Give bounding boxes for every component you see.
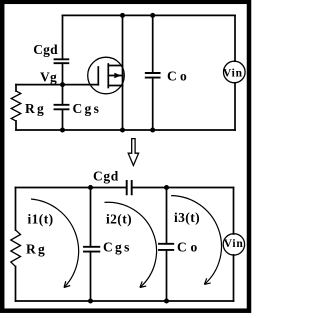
wire: Cgd branch upper segment xyxy=(62,15,64,59)
junction: Co branch / top rail xyxy=(150,13,155,18)
transistor M1 drain stub xyxy=(108,65,122,67)
svg-text:i3(t): i3(t) xyxy=(174,210,200,225)
capacitor Cgs (upper circuit) xyxy=(55,105,69,110)
wire: Cgd branch lower segment to node Vg xyxy=(62,63,64,84)
wire: node Vg horizontal (gate lead) xyxy=(16,84,98,86)
source Vin circle (lower circuit) xyxy=(223,234,244,255)
wire: Vin branch lower xyxy=(234,83,236,130)
svg-text:Rg: Rg xyxy=(25,101,46,116)
svg-text:Vg: Vg xyxy=(40,70,57,85)
transistor M1 channel bar xyxy=(107,64,109,88)
svg-text:Cgs: Cgs xyxy=(103,240,132,255)
junction: Co branch / bottom rail (lower circuit) xyxy=(164,299,169,304)
resistor Rg (lower circuit) xyxy=(11,230,21,267)
wire: Rg top lead xyxy=(15,85,17,91)
svg-text:Cgs: Cgs xyxy=(73,101,102,116)
source Vin circle (upper circuit) xyxy=(224,61,246,83)
transistor M1 gate bar xyxy=(97,67,99,85)
svg-text:Rg: Rg xyxy=(26,242,47,257)
wire: bottom rail of lower circuit xyxy=(16,300,234,302)
wire: left rail lower segment xyxy=(15,267,17,302)
current loop i3(t) arc xyxy=(171,196,221,285)
wire: Co branch xyxy=(152,15,154,130)
junction: Cgs branch / bottom rail xyxy=(60,128,65,133)
wire: Cgs leads xyxy=(62,85,64,130)
current loop i1(t) arc xyxy=(31,199,79,288)
svg-text:Vin: Vin xyxy=(224,238,244,250)
wire: bottom rail of upper circuit xyxy=(16,129,235,131)
junction: Cgs branch / bottom rail (lower circuit) xyxy=(88,299,93,304)
junction: Cgs branch / top rail (lower circuit) xyxy=(88,185,93,190)
current loop i2(t) arrowhead xyxy=(140,281,146,287)
transistor M1 substrate stub xyxy=(108,75,122,77)
junction: source rail / bottom rail xyxy=(120,128,125,133)
wire: Rg bottom lead xyxy=(15,121,17,130)
wire: top rail of lower circuit xyxy=(16,187,234,189)
junction: Co branch / top rail (lower circuit) xyxy=(164,185,169,190)
current loop i2(t) arc xyxy=(105,202,157,287)
arrow: transformation arrow between circuits xyxy=(128,139,138,166)
wire: Co branch lower circuit xyxy=(166,188,168,302)
wire: right rail lower segment (lower circuit) xyxy=(233,255,235,301)
svg-text:Co: Co xyxy=(167,69,190,84)
capacitor Cgd (lower circuit) xyxy=(127,181,132,194)
capacitor Co (lower circuit) xyxy=(159,244,173,250)
current loop i1(t) arrowhead xyxy=(64,281,70,287)
junction: drain rail / top rail xyxy=(120,13,125,18)
current loop i3(t) arrowhead xyxy=(204,278,210,284)
capacitor Cgs (lower circuit) xyxy=(84,247,99,252)
wire: Cgs branch lower circuit xyxy=(90,188,92,302)
svg-text:Co: Co xyxy=(177,240,201,255)
wire: top rail of upper circuit xyxy=(63,14,236,16)
wire: drain-source vertical rail xyxy=(122,15,124,130)
svg-text:Cgd: Cgd xyxy=(93,169,119,184)
capacitor Cgd (upper circuit) xyxy=(55,59,69,63)
node Vg junction xyxy=(60,82,65,87)
svg-text:Cgd: Cgd xyxy=(33,42,58,57)
transistor M1 body circle xyxy=(88,57,125,94)
resistor Rg (upper circuit) xyxy=(11,91,21,121)
transistor M1 source stub xyxy=(108,85,122,87)
wire: left rail of lower circuit xyxy=(15,188,17,231)
junction: Co branch / bottom rail xyxy=(150,128,155,133)
svg-text:Vin: Vin xyxy=(223,67,243,79)
svg-text:i2(t): i2(t) xyxy=(106,212,132,227)
wire: right rail upper segment (lower circuit) xyxy=(233,188,235,235)
transistor M1 substrate arrow xyxy=(114,73,121,79)
capacitor Co (upper circuit) xyxy=(146,73,160,78)
wire: Vin branch upper xyxy=(234,15,236,61)
svg-text:i1(t): i1(t) xyxy=(28,212,54,227)
